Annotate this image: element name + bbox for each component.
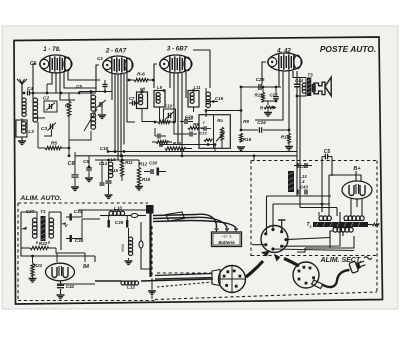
socket auto plug xyxy=(219,266,246,293)
voltmeter V xyxy=(61,212,68,250)
trimmer C2 xyxy=(44,101,57,112)
capacitor C24 label xyxy=(257,120,266,125)
rectifier tube 84 label xyxy=(83,264,89,270)
capacitor C13b label xyxy=(199,131,207,136)
T1 primary xyxy=(32,216,37,244)
tube V4 (42) xyxy=(268,53,302,71)
svg-text:R9: R9 xyxy=(243,119,249,124)
capacitor C27 xyxy=(273,86,279,103)
capacitor C18 label xyxy=(100,146,109,151)
bus line B xyxy=(75,150,297,160)
svg-text:R10: R10 xyxy=(173,141,182,146)
svg-text:C42: C42 xyxy=(66,284,75,289)
capacitor C7 label xyxy=(129,96,135,101)
dashed box ALIM AUTO xyxy=(18,203,157,301)
rectifier tube 84 xyxy=(46,263,75,281)
wire grid bus V4 xyxy=(240,86,281,89)
svg-text:C9: C9 xyxy=(83,159,89,164)
label ALIM AUTO xyxy=(19,195,61,202)
socket chassis plug xyxy=(261,226,288,253)
socket1 wires xyxy=(252,196,354,251)
tube V1 label xyxy=(43,46,61,53)
resistor R20 xyxy=(264,101,276,116)
coil L8 label xyxy=(140,87,146,92)
wire cluster links xyxy=(95,159,139,176)
capacitor C9 label xyxy=(83,159,89,164)
resistor R10 xyxy=(165,147,192,150)
resistor R12 xyxy=(137,160,140,186)
wire V2 electrodes down xyxy=(112,72,135,160)
IF2 coil xyxy=(188,89,199,112)
socket mains plug xyxy=(293,262,319,288)
speaker magnet xyxy=(314,82,325,94)
mains cord sleeve xyxy=(312,280,324,289)
resistor R12 label xyxy=(139,162,148,167)
wire V1 cap lead xyxy=(33,64,37,93)
battery box xyxy=(212,232,242,247)
capacitor C5b label xyxy=(76,84,82,89)
coil L5 xyxy=(90,90,96,111)
fuse F2 xyxy=(139,222,152,269)
svg-text:C19: C19 xyxy=(164,104,172,109)
capacitor C8a label xyxy=(68,161,75,167)
capacitor C9 xyxy=(86,156,92,177)
svg-text:C30: C30 xyxy=(149,161,158,166)
coil L2 xyxy=(32,92,38,123)
ground 5800 xyxy=(125,261,133,264)
capacitor C5 xyxy=(322,154,332,159)
svg-text:C25: C25 xyxy=(256,77,265,83)
capacitor C1 label xyxy=(97,56,103,61)
capacitor C32 label xyxy=(74,209,83,214)
T2 right lead xyxy=(368,223,379,226)
resistor R9b xyxy=(152,141,172,144)
boxed coil L3 xyxy=(16,120,27,137)
wire antenna bus xyxy=(30,92,96,95)
wire alim loop xyxy=(78,210,100,239)
wire L2 bottom xyxy=(33,112,45,118)
battery text xyxy=(218,235,235,245)
capacitor C10 label xyxy=(185,116,193,121)
svg-text:5800: 5800 xyxy=(121,244,125,252)
trimmer C3 xyxy=(44,123,56,137)
coil L12 label xyxy=(127,285,135,290)
tube V2 (6A7) xyxy=(103,56,133,74)
capacitor C20 label xyxy=(185,115,194,120)
wire L7 to C24 col xyxy=(205,109,243,112)
dashed box chassis right xyxy=(155,161,377,300)
capacitor C2 label xyxy=(43,96,49,102)
capacitor C13 xyxy=(106,170,112,194)
capacitor C43 label xyxy=(300,185,308,190)
ground antenna coil xyxy=(18,137,26,144)
capacitor C42 label xyxy=(66,284,75,289)
trimmer C2b xyxy=(96,100,106,118)
title POSTE AUTO xyxy=(320,44,376,54)
svg-text:C13: C13 xyxy=(199,131,207,136)
ground R12 xyxy=(135,187,143,190)
potentiometer R4 xyxy=(204,127,225,148)
svg-text:C20: C20 xyxy=(185,115,194,120)
wire C25 drop xyxy=(240,87,242,130)
resistor R4b label xyxy=(217,118,223,123)
resistor R4a label xyxy=(203,120,205,125)
label ALIM SECT xyxy=(319,257,372,264)
battery terminals xyxy=(215,229,239,232)
capacitor C39 label xyxy=(115,220,124,225)
wire L12 feed xyxy=(57,281,121,284)
capacitor C27 label xyxy=(269,93,278,98)
tube V4 label xyxy=(276,48,291,55)
capacitor C12 xyxy=(100,176,105,185)
svg-text:B+: B+ xyxy=(353,166,361,172)
mains plug xyxy=(349,258,367,273)
svg-text:L11: L11 xyxy=(194,85,202,90)
capacitor C44 label xyxy=(295,78,304,83)
capacitor C25 label xyxy=(256,77,265,83)
wire V3 cap lead xyxy=(154,64,157,88)
capacitor C17 xyxy=(174,122,197,137)
fuse F1 xyxy=(131,214,146,218)
resistor R5 label xyxy=(51,141,57,147)
transformer T2 label xyxy=(306,222,311,229)
resistor R8 label xyxy=(193,122,199,127)
resistor R22 xyxy=(21,246,56,249)
svg-text:+12 -6: +12 -6 xyxy=(221,235,231,239)
svg-text:1 - 78.: 1 - 78. xyxy=(43,46,61,53)
ground C9 xyxy=(85,178,93,181)
coil L12 xyxy=(121,279,213,285)
svg-text:R12: R12 xyxy=(139,162,148,167)
capacitor C8a xyxy=(72,152,79,186)
cable sleeve xyxy=(166,212,185,221)
svg-text:C7: C7 xyxy=(129,96,135,101)
tube V3 label xyxy=(167,46,188,53)
svg-text:C24: C24 xyxy=(257,120,266,125)
wire grid drop xyxy=(46,84,49,94)
capacitor C16 label xyxy=(215,96,224,101)
svg-text:r: r xyxy=(203,120,205,125)
wire V3 plate to L7 xyxy=(193,50,210,88)
arrow from socket3 xyxy=(274,254,299,266)
coil L5b variable xyxy=(69,109,97,140)
ground C42 xyxy=(57,295,65,298)
capacitor C20 xyxy=(180,119,193,124)
resistor R5 xyxy=(38,146,69,149)
capacitor C30 label xyxy=(149,161,158,166)
thick lead vertical xyxy=(149,212,151,277)
resistor R8 xyxy=(188,127,203,130)
coil 5800 ohm xyxy=(129,228,133,260)
resistor R13 label xyxy=(142,177,151,182)
capacitor Cb xyxy=(103,80,108,92)
ground C8a xyxy=(71,187,79,190)
T1 secondary xyxy=(49,216,54,244)
svg-text:C18: C18 xyxy=(100,146,109,151)
T3 secondary xyxy=(312,84,315,92)
transformer T1 label xyxy=(40,209,46,215)
R4 box xyxy=(199,115,230,149)
capacitor C16 dot xyxy=(206,100,218,103)
svg-text:C14: C14 xyxy=(99,161,108,166)
capacitor C39a xyxy=(108,216,110,228)
antenna xyxy=(17,79,27,93)
resistor R16 label xyxy=(243,137,252,142)
capacitor C42 xyxy=(57,281,64,294)
svg-text:L3: L3 xyxy=(28,129,34,135)
resistor R20 label xyxy=(260,106,264,111)
IF1 secondary coil xyxy=(154,89,165,114)
ground R21 xyxy=(29,279,37,282)
wire C5 drops xyxy=(322,157,337,217)
resistor R19 label xyxy=(254,93,263,98)
coil L10 xyxy=(100,211,131,215)
svg-text:R21: R21 xyxy=(34,263,43,268)
capacitor C39b xyxy=(126,216,128,228)
resistor R10 label xyxy=(173,141,182,146)
resistor R15 xyxy=(285,130,293,150)
resistor R4a xyxy=(201,126,211,131)
wire alim inner xyxy=(56,248,85,262)
coil L10 label xyxy=(114,206,122,211)
svg-text:T3: T3 xyxy=(307,73,313,78)
T2 secondary loop xyxy=(297,231,354,252)
vibrator arm xyxy=(21,212,27,252)
label L13 xyxy=(299,174,307,179)
capacitor C19 trimmer xyxy=(164,104,176,123)
wire V3 electrodes down xyxy=(170,72,186,156)
capacitor C16b xyxy=(155,128,166,139)
capacitor C41 xyxy=(294,163,312,168)
svg-text:C5: C5 xyxy=(76,84,82,89)
svg-text:C3: C3 xyxy=(41,126,47,132)
socket1 pins xyxy=(264,228,287,251)
svg-text:R-6: R-6 xyxy=(137,72,145,78)
resistor R19 xyxy=(261,86,276,102)
mains cord xyxy=(322,270,350,287)
svg-text:C15: C15 xyxy=(110,168,119,173)
rectifier wires xyxy=(329,171,361,216)
wire V1 electrodes down xyxy=(47,70,100,100)
T2 primary coil a xyxy=(319,212,331,221)
svg-text:ALIM. AUTO.: ALIM. AUTO. xyxy=(19,195,61,202)
svg-text:POSTE AUTO.: POSTE AUTO. xyxy=(320,44,376,54)
capacitor C38 label xyxy=(75,238,84,243)
coil L3 label xyxy=(28,129,34,135)
capacitor C44 xyxy=(294,84,300,87)
coil L7 xyxy=(206,88,210,117)
tube V1 (78) xyxy=(40,55,72,73)
label B plus xyxy=(353,166,361,172)
coil L11 label xyxy=(194,85,202,90)
T1 wires xyxy=(21,212,61,216)
transformer T2 core xyxy=(313,222,368,227)
speaker horn xyxy=(325,77,331,96)
wire V4 electrodes down xyxy=(255,71,293,130)
resistor R16 xyxy=(240,133,243,142)
capacitor C37 label xyxy=(26,209,35,214)
capacitor C5 label xyxy=(324,149,331,155)
resistor R9c label xyxy=(243,119,249,124)
svg-text:R5: R5 xyxy=(51,141,57,147)
svg-text:C37: C37 xyxy=(26,209,35,214)
label 5800 ohm xyxy=(121,244,125,252)
resistor R7 xyxy=(142,109,175,124)
svg-text:L9: L9 xyxy=(157,85,163,90)
capacitor C26 xyxy=(259,84,261,90)
cables to socket2 xyxy=(155,274,212,288)
coil L9 label xyxy=(157,85,163,90)
capacitor C41 label xyxy=(300,164,309,169)
T3 primary xyxy=(293,71,306,96)
IF1 primary coil xyxy=(137,88,148,109)
choke L13 core xyxy=(288,171,294,192)
svg-text:T1: T1 xyxy=(40,209,46,215)
resistor R2 xyxy=(67,93,71,157)
resistor R6 xyxy=(128,78,155,81)
capacitor C14 label xyxy=(99,161,108,166)
capacitor C4 label xyxy=(27,86,33,92)
resistor R22 label xyxy=(39,241,48,246)
border frame xyxy=(14,37,383,304)
coil L6 label xyxy=(110,157,116,162)
label L14 xyxy=(300,179,306,184)
capacitor C24 xyxy=(240,127,291,133)
transformer T3 core xyxy=(307,78,311,97)
battery cable xyxy=(153,214,236,228)
svg-text:Ra: Ra xyxy=(217,118,223,123)
svg-text:R16: R16 xyxy=(243,137,252,142)
svg-text:C8: C8 xyxy=(68,161,75,167)
ground C13 xyxy=(105,195,113,198)
socket top T xyxy=(278,220,286,232)
tube V3 (6B7) xyxy=(160,55,192,73)
capacitor C43 xyxy=(298,190,307,195)
resistor R15 label xyxy=(281,135,290,140)
connector block xyxy=(100,205,154,214)
svg-text:C43: C43 xyxy=(300,185,308,190)
svg-text:84: 84 xyxy=(83,264,89,270)
capacitor C3 label xyxy=(41,126,47,132)
svg-text:C44: C44 xyxy=(295,78,304,83)
T2 primary coil b xyxy=(344,216,364,221)
resistor R21 label xyxy=(34,263,43,268)
resistor R6 label xyxy=(137,72,145,78)
capacitor C30 xyxy=(144,168,166,176)
resistor R11 label xyxy=(125,160,133,165)
wire y144 bus xyxy=(160,142,216,152)
capacitor C32 xyxy=(66,214,78,221)
wire B plus feeders xyxy=(296,71,300,208)
capacitor C38 xyxy=(66,235,78,242)
svg-text:C1: C1 xyxy=(97,56,103,61)
svg-text:2 - 6A7: 2 - 6A7 xyxy=(105,48,127,55)
capacitor C15 label xyxy=(110,168,119,173)
wire V2 cap lead xyxy=(96,65,99,92)
coil L6 xyxy=(109,160,113,178)
svg-text:C16: C16 xyxy=(215,96,224,101)
tube V2 label xyxy=(105,48,127,55)
rectifier tube V5 xyxy=(342,181,372,199)
capacitor C6 label xyxy=(30,61,37,67)
svg-text:L6: L6 xyxy=(110,157,116,162)
svg-text:2: 2 xyxy=(309,225,312,229)
cable sleeve socket2 xyxy=(212,270,220,286)
capacitor C4 xyxy=(23,91,30,96)
coil L1 xyxy=(22,93,26,122)
resistor R21 xyxy=(31,256,34,278)
arrow from socket2 xyxy=(246,251,271,278)
transformer T1 core xyxy=(41,216,46,241)
wire V4 cap lead xyxy=(262,62,266,85)
T2 secondary xyxy=(333,198,362,232)
svg-text:C39: C39 xyxy=(115,220,124,225)
svg-text:L8: L8 xyxy=(140,87,146,92)
svg-text:3 - 6B7: 3 - 6B7 xyxy=(167,46,188,53)
resistor R2 label xyxy=(65,103,71,109)
ground left C24 xyxy=(237,147,245,150)
wire grid bus V2 xyxy=(79,90,112,93)
ground L12 area xyxy=(148,281,156,294)
bus line A xyxy=(107,150,297,153)
svg-text:Batterie: Batterie xyxy=(218,240,235,245)
wire left drop xyxy=(37,122,39,148)
svg-text:R22: R22 xyxy=(39,241,48,246)
svg-text:L4: L4 xyxy=(300,179,306,184)
wire alim bottom rail xyxy=(21,252,95,262)
capacitor C7 xyxy=(129,101,138,106)
resistor R11 xyxy=(120,154,123,181)
svg-text:R18: R18 xyxy=(142,177,151,182)
transformer T3 label xyxy=(307,73,313,78)
svg-text:R11: R11 xyxy=(125,160,133,165)
